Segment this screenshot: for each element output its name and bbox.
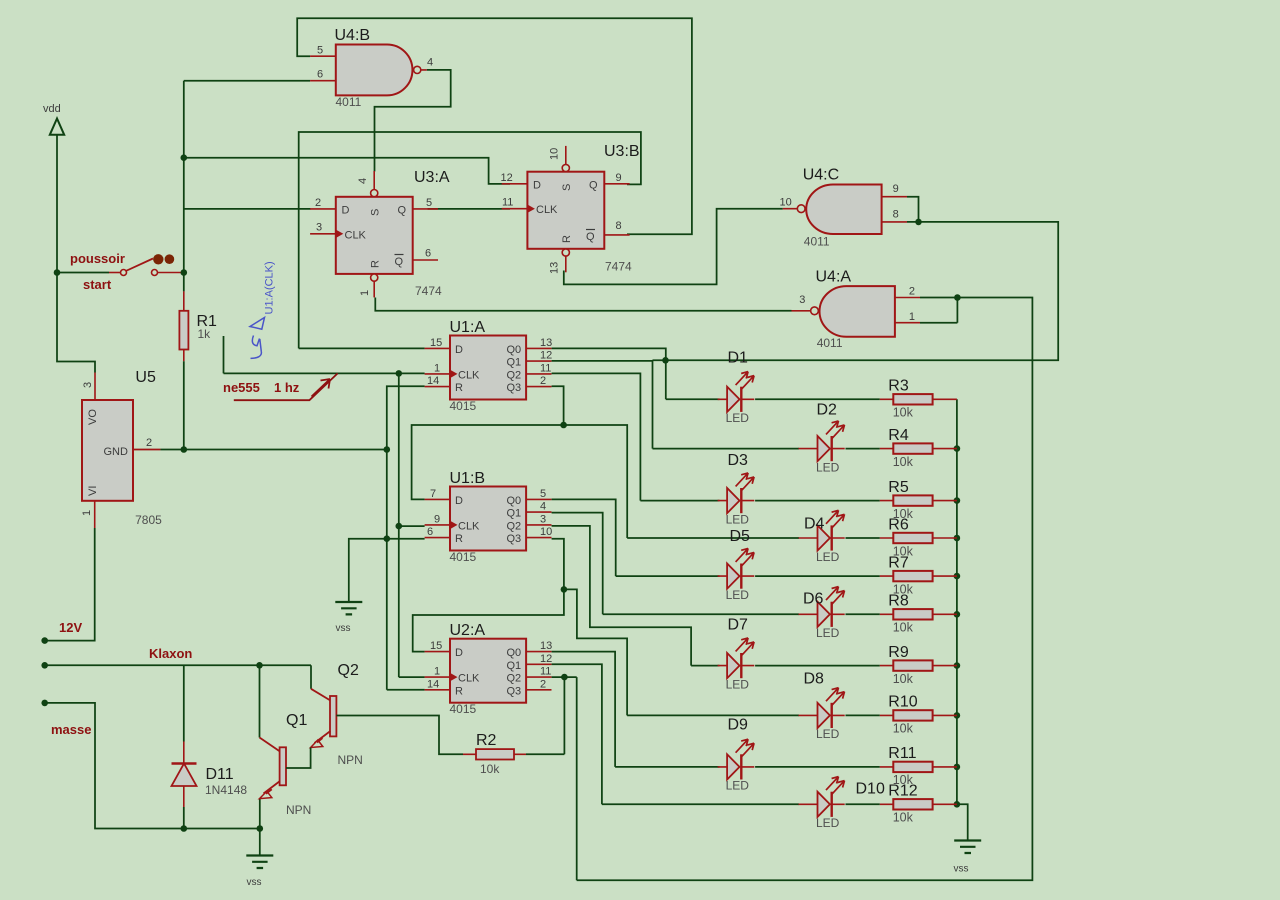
svg-text:7: 7 (430, 488, 436, 500)
flip-flop U3:A 7474 (310, 171, 438, 297)
svg-text:R3: R3 (888, 378, 909, 395)
svg-text:11: 11 (540, 666, 551, 678)
node rail junction y576 (954, 573, 961, 580)
LED D5 (718, 548, 755, 588)
wire Q1 emitter to ground (259, 799, 261, 856)
resistor R10 (880, 710, 957, 720)
regulator U5 7805 (82, 373, 160, 501)
svg-text:1: 1 (909, 311, 915, 323)
svg-text:Q3: Q3 (507, 685, 522, 697)
svg-text:CLK: CLK (458, 673, 480, 685)
node rail junction y766 (954, 764, 961, 771)
svg-text:4: 4 (357, 178, 369, 184)
svg-text:R11: R11 (888, 745, 916, 762)
resistor R5 (880, 495, 957, 505)
svg-text:12: 12 (501, 172, 513, 184)
svg-text:2: 2 (315, 197, 321, 209)
svg-text:D: D (533, 179, 541, 191)
resistor R1 (179, 273, 188, 450)
svg-text:poussoir: poussoir (70, 251, 125, 266)
svg-text:GND: GND (104, 446, 129, 458)
pin name Q U3:A (398, 205, 407, 217)
svg-text:LED: LED (726, 411, 750, 425)
nand gate U4:B 4011 (310, 45, 427, 96)
svg-text:Q3: Q3 (507, 382, 522, 394)
svg-text:10: 10 (780, 197, 792, 209)
svg-text:R8: R8 (888, 593, 909, 610)
svg-text:D: D (455, 344, 463, 356)
wire vdd to pushbutton (57, 272, 109, 274)
svg-text:D7: D7 (728, 617, 749, 634)
svg-text:D8: D8 (804, 671, 825, 688)
svg-text:Q0: Q0 (507, 647, 522, 659)
svg-text:1 hz: 1 hz (274, 380, 300, 395)
wire node to U3:A D (184, 208, 311, 210)
node D11 bottom junction (181, 825, 188, 832)
svg-text:R: R (455, 382, 463, 394)
svg-text:Q0: Q0 (507, 344, 522, 356)
svg-text:Q3: Q3 (507, 533, 522, 545)
pushbutton poussoir contacts (121, 254, 175, 275)
svg-text:R: R (455, 533, 463, 545)
svg-text:LED: LED (816, 626, 840, 640)
svg-text:6: 6 (427, 526, 433, 538)
svg-text:D2: D2 (817, 402, 838, 419)
wire U1:B Q3 node (552, 539, 564, 590)
wire U4:B pin5 to U3:B Q-bar (297, 18, 692, 234)
svg-text:Q: Q (589, 179, 598, 191)
svg-text:R: R (370, 260, 382, 268)
svg-text:7474: 7474 (415, 284, 442, 298)
annotation ne555 1hz (234, 373, 338, 400)
svg-text:6: 6 (317, 69, 323, 81)
svg-text:LED: LED (816, 460, 840, 474)
wire Klaxon row (45, 664, 311, 666)
wire right vss rail (957, 399, 968, 840)
svg-text:Q2: Q2 (507, 369, 522, 381)
svg-text:Q2: Q2 (507, 520, 522, 532)
node switch/R1/pin6 junction (181, 269, 188, 276)
svg-text:2: 2 (909, 286, 915, 298)
svg-text:VI: VI (87, 486, 99, 496)
wire D8 to R10 (846, 714, 880, 716)
svg-text:D: D (455, 647, 463, 659)
resistor R4 (880, 443, 957, 453)
svg-text:D5: D5 (730, 528, 751, 545)
resistor R11 (880, 762, 957, 772)
ground vss left (335, 602, 362, 614)
node junction on vdd line at switch (54, 269, 61, 276)
LED D8 (799, 688, 845, 728)
svg-text:NPN: NPN (338, 753, 363, 767)
pin name Q-bar U3:B (586, 230, 595, 244)
node Q1 emitter junction (257, 825, 264, 832)
node rail junction y500 (954, 497, 961, 504)
svg-text:14: 14 (427, 375, 439, 387)
svg-text:Q1: Q1 (507, 508, 522, 520)
svg-text:U3:B: U3:B (604, 143, 640, 160)
diode D11 (172, 665, 197, 828)
svg-text:D9: D9 (728, 717, 749, 734)
wire pin6 net vertical to U4:B (184, 81, 310, 273)
wire U4:C inputs tied (653, 197, 1059, 361)
svg-text:12: 12 (540, 350, 552, 362)
svg-text:U4:B: U4:B (335, 27, 371, 44)
svg-text:10k: 10k (893, 672, 914, 686)
svg-text:10k: 10k (480, 762, 500, 776)
svg-text:1: 1 (81, 510, 93, 516)
svg-text:10k: 10k (893, 621, 914, 635)
node U4:C input junction (915, 219, 922, 226)
LED D10 (799, 777, 845, 817)
svg-text:6: 6 (425, 248, 431, 260)
node U4:A input junction (954, 294, 961, 301)
svg-text:R10: R10 (888, 694, 917, 711)
wire U4:A out to U3:A R (375, 298, 791, 311)
svg-text:5: 5 (540, 488, 546, 500)
wire D5 to R7 (755, 575, 880, 577)
resistor R6 (880, 533, 957, 543)
ground vss under Q1 (246, 856, 273, 869)
shift register U1:B 4015 (425, 487, 552, 551)
svg-text:LED: LED (726, 677, 750, 691)
svg-text:D10: D10 (856, 781, 885, 798)
svg-text:D6: D6 (803, 591, 824, 608)
svg-text:NPN: NPN (286, 803, 311, 817)
svg-text:D4: D4 (804, 516, 825, 533)
svg-text:D: D (342, 205, 350, 217)
wire D3 to R5 (755, 500, 880, 502)
svg-text:13: 13 (540, 337, 552, 349)
wire U4:B out to U3:A S (375, 70, 451, 172)
svg-text:R5: R5 (888, 479, 909, 496)
wire pushbutton to R1 node (158, 272, 184, 274)
svg-text:U3:A: U3:A (414, 169, 450, 186)
svg-text:4: 4 (540, 501, 546, 513)
svg-text:5: 5 (317, 45, 323, 57)
svg-text:CLK: CLK (458, 520, 480, 532)
svg-text:R9: R9 (888, 644, 909, 661)
wire 1hz clock net (224, 336, 425, 373)
svg-text:13: 13 (549, 262, 561, 274)
annotation clock waveform blue (250, 318, 265, 359)
resistor R9 (880, 660, 957, 670)
svg-text:10k: 10k (893, 722, 914, 736)
svg-text:2: 2 (146, 437, 152, 449)
svg-text:vdd: vdd (43, 103, 61, 115)
resistor R2 (463, 677, 564, 759)
svg-text:R4: R4 (888, 427, 909, 444)
wire Q3b to U2:A D (413, 589, 564, 651)
node terminal Klaxon (41, 662, 48, 669)
node GND rail to R vertical (384, 446, 391, 453)
resistor R7 (880, 571, 957, 581)
wire U1:A Q0 to D1 (552, 348, 720, 399)
svg-text:11: 11 (540, 362, 551, 374)
svg-text:U4:C: U4:C (803, 166, 839, 183)
wire node to U3:B D (184, 158, 510, 184)
resistor R8 (880, 609, 957, 619)
shift register U1:A 4015 (425, 336, 552, 400)
svg-text:7474: 7474 (605, 260, 632, 274)
svg-text:4011: 4011 (817, 336, 843, 350)
wire R chain vertical (387, 386, 425, 690)
wire D10 to R12 (846, 803, 880, 805)
node R1 bottom junction (181, 446, 188, 453)
svg-text:R7: R7 (888, 554, 909, 571)
wire U3:B Q to U1:A D (299, 132, 641, 348)
wire R net to ground (349, 539, 387, 602)
wire Q3 to D4 (564, 425, 799, 538)
svg-text:U1:A: U1:A (450, 319, 486, 336)
nand gate U4:C 4011 (783, 185, 907, 235)
svg-text:8: 8 (616, 220, 622, 232)
node CLK chain top (396, 370, 403, 377)
LED D4 (799, 510, 845, 550)
wire Q3b to D8 (564, 589, 799, 715)
wire D1 to R3 (755, 398, 880, 400)
svg-text:U5: U5 (135, 369, 156, 386)
wire U1:A Q1 to D2 (552, 361, 799, 449)
svg-text:U1:B: U1:B (450, 470, 486, 487)
svg-text:Q1: Q1 (286, 712, 307, 729)
pin name Q U3:B (589, 179, 598, 191)
svg-text:Q0: Q0 (507, 495, 522, 507)
svg-text:U1:A(CLK): U1:A(CLK) (264, 261, 276, 314)
svg-text:Q2: Q2 (507, 673, 522, 685)
svg-text:3: 3 (799, 294, 805, 306)
wire D4 to R6 (846, 537, 880, 539)
wire D6 to R8 (846, 613, 880, 615)
svg-text:1N4148: 1N4148 (205, 783, 247, 797)
svg-text:U2:A: U2:A (450, 622, 486, 639)
resistor R3 (880, 394, 957, 404)
svg-text:Q1: Q1 (507, 660, 522, 672)
node U1:B Q3 junction (561, 586, 568, 593)
svg-text:vss: vss (247, 877, 262, 888)
svg-text:9: 9 (616, 172, 622, 184)
svg-text:1k: 1k (198, 327, 212, 341)
resistor R12 (880, 799, 957, 809)
node junction on pin6 vertical (181, 154, 188, 161)
node rail junction y448 (954, 445, 961, 452)
power symbol vdd (50, 119, 95, 373)
svg-text:4011: 4011 (336, 95, 362, 109)
wire U3:A Q to U3:B CLK (428, 208, 510, 210)
svg-text:Klaxon: Klaxon (149, 646, 192, 661)
svg-text:VO: VO (87, 409, 99, 425)
LED D3 (718, 473, 755, 513)
svg-text:D3: D3 (728, 452, 749, 469)
svg-text:ne555: ne555 (223, 380, 260, 395)
svg-text:LED: LED (816, 727, 840, 741)
wire U4:A inputs tied (577, 298, 1033, 881)
svg-text:13: 13 (540, 640, 552, 652)
transistor Q2 NPN (286, 665, 463, 768)
svg-text:CLK: CLK (536, 204, 558, 216)
wire D2 to R4 (846, 448, 880, 450)
wire U1:B Q1 to D6 (552, 513, 799, 615)
wire U2:A Q2 net (552, 677, 577, 880)
svg-text:1: 1 (434, 362, 440, 374)
svg-text:4015: 4015 (450, 550, 477, 564)
svg-text:2: 2 (540, 678, 546, 690)
svg-text:LED: LED (816, 550, 840, 564)
svg-text:S: S (370, 209, 382, 216)
svg-text:9: 9 (893, 183, 899, 195)
node terminal 12V (41, 637, 48, 644)
LED D2 (799, 421, 845, 461)
svg-text:R: R (455, 685, 463, 697)
nand gate U4:A 4011 (792, 286, 921, 337)
svg-text:R12: R12 (888, 783, 917, 800)
transistor Q1 NPN (260, 665, 287, 798)
wire masse row (45, 703, 260, 829)
LED D9 (718, 739, 755, 779)
svg-text:LED: LED (816, 816, 840, 830)
svg-text:Q: Q (395, 256, 404, 268)
svg-text:11: 11 (502, 197, 513, 209)
svg-text:4011: 4011 (804, 235, 830, 249)
svg-text:2: 2 (540, 375, 546, 387)
wire U3:B R to U4:C out (564, 209, 783, 285)
node rail junction y715 (954, 712, 961, 719)
pin name Q-bar U3:A (395, 255, 404, 269)
wire CLK chain vertical (399, 373, 425, 677)
svg-text:1: 1 (359, 290, 371, 296)
node rail junction y614 (954, 611, 961, 618)
svg-text:Q2: Q2 (338, 662, 359, 679)
svg-text:10: 10 (549, 148, 561, 160)
svg-text:15: 15 (430, 337, 442, 349)
wire U1:A Q3 node (552, 386, 564, 425)
svg-text:4: 4 (427, 57, 433, 69)
svg-text:CLK: CLK (345, 229, 367, 241)
svg-text:start: start (83, 277, 112, 292)
node rail junction y538 (954, 535, 961, 542)
node CLK chain U1:B (396, 523, 403, 530)
wire U5 GND rail (160, 449, 386, 451)
wire U1:A Q2 to D3 (552, 373, 720, 500)
wire U1:B Q0 to D5 (552, 499, 720, 576)
svg-text:D1: D1 (728, 350, 749, 367)
node U2:A Q2 junction (561, 674, 568, 681)
svg-text:vss: vss (954, 864, 969, 875)
LED D7 (718, 638, 755, 678)
svg-text:1: 1 (434, 666, 440, 678)
wire Q3 to U1:B D (412, 425, 564, 499)
node Q1 collector junction (256, 662, 263, 669)
svg-text:Q: Q (398, 205, 407, 217)
svg-text:8: 8 (893, 208, 899, 220)
node rail junction y665 (954, 662, 961, 669)
svg-text:15: 15 (430, 640, 442, 652)
svg-text:CLK: CLK (458, 369, 480, 381)
svg-text:14: 14 (427, 678, 439, 690)
svg-text:R: R (561, 235, 573, 243)
svg-text:5: 5 (426, 197, 432, 209)
svg-text:LED: LED (726, 779, 750, 793)
node U1:A Q3 junction (560, 422, 567, 429)
svg-text:9: 9 (434, 513, 440, 525)
LED D6 (799, 587, 845, 627)
svg-text:4015: 4015 (450, 702, 477, 716)
svg-text:R6: R6 (888, 516, 909, 533)
wire U2:A Q0 to D9 (552, 652, 720, 767)
node Q0 rail junction (662, 357, 669, 364)
svg-text:D11: D11 (206, 766, 234, 783)
svg-text:10k: 10k (893, 406, 914, 420)
svg-text:LED: LED (726, 588, 750, 602)
svg-text:10k: 10k (893, 455, 914, 469)
wire U1:B Q2 to D7 (552, 526, 720, 666)
node rail junction R12 (954, 801, 961, 808)
svg-text:12: 12 (540, 653, 552, 665)
flip-flop U3:B 7474 (502, 146, 630, 272)
node terminal masse (41, 700, 48, 707)
ground vss right (954, 841, 981, 854)
wire U2:A Q1 to D10 (552, 664, 799, 804)
wire D9 to R11 (755, 766, 880, 768)
svg-text:masse: masse (51, 722, 91, 737)
svg-text:U4:A: U4:A (816, 269, 852, 286)
svg-text:10k: 10k (893, 811, 914, 825)
svg-text:3: 3 (316, 222, 322, 234)
svg-text:LED: LED (726, 512, 750, 526)
svg-text:7805: 7805 (135, 513, 162, 527)
svg-text:vss: vss (336, 623, 351, 634)
svg-text:4015: 4015 (450, 399, 477, 413)
svg-text:3: 3 (82, 382, 94, 388)
svg-text:Q: Q (586, 231, 595, 243)
svg-text:D: D (455, 495, 463, 507)
svg-text:R2: R2 (476, 732, 497, 749)
wire U5 VI to 12V node (94, 501, 96, 528)
shift register U2:A 4015 (425, 639, 552, 703)
LED D1 (718, 372, 755, 412)
svg-text:Q1: Q1 (507, 357, 522, 369)
svg-text:3: 3 (540, 513, 546, 525)
svg-text:10: 10 (540, 526, 552, 538)
svg-text:S: S (561, 184, 573, 191)
svg-text:12V: 12V (59, 620, 82, 635)
node R chain U1:B (384, 535, 391, 542)
wire D7 to R9 (755, 665, 880, 667)
